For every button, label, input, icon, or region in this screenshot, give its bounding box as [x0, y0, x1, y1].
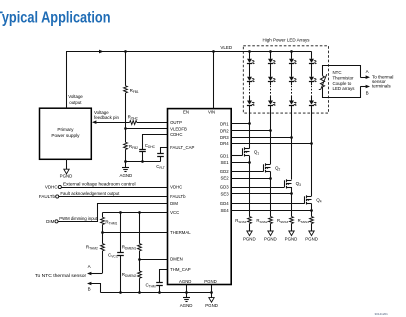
LED D2a	[268, 59, 273, 63]
resistor R_FB1	[124, 86, 128, 93]
LED D1c	[247, 101, 252, 105]
wire DMEN	[139, 259, 167, 261]
resistor R_FB2	[124, 142, 128, 149]
node feedback AGND rail	[124, 160, 127, 163]
wire GD1	[231, 155, 242, 157]
ground AGND under IC	[186, 285, 188, 298]
LED D3b	[289, 77, 294, 81]
svg-text:EN: EN	[183, 109, 189, 114]
resistor R_DMEN2	[139, 259, 141, 271]
wire GD2	[231, 171, 263, 173]
LED D2c	[268, 101, 273, 105]
svg-text:PGND: PGND	[264, 237, 277, 242]
svg-text:SE3: SE3	[220, 192, 229, 197]
LED D2b	[268, 77, 273, 81]
svg-text:CDHC: CDHC	[170, 132, 182, 137]
wire SE3	[231, 193, 291, 195]
svg-text:VDHC: VDHC	[45, 185, 59, 190]
svg-text:THERMAL: THERMAL	[170, 230, 191, 235]
svg-text:DR1: DR1	[220, 122, 229, 127]
node THERMAL	[101, 231, 104, 234]
node VLED string3	[290, 50, 293, 53]
svg-text:FAULTb: FAULTb	[39, 194, 56, 199]
wire GD4	[231, 203, 305, 205]
svg-text:LED arrays: LED arrays	[333, 86, 356, 91]
node C_THM gnd	[158, 291, 161, 294]
svg-text:SE2: SE2	[220, 176, 229, 181]
node SE2	[269, 177, 272, 180]
transistor Q3	[284, 180, 286, 187]
svg-text:PGND: PGND	[243, 237, 256, 242]
LED D3a	[289, 59, 294, 63]
wire source to sense resistor 3	[291, 187, 293, 217]
node VCC C_VCC tap	[119, 211, 122, 214]
node VLED VIN tap	[212, 50, 215, 53]
ground PGND sense 1	[249, 224, 251, 232]
node SE4	[310, 209, 313, 212]
wire bottom AGND rail	[101, 292, 212, 294]
resistor R_SNS4	[310, 217, 314, 224]
LED D4b	[309, 77, 314, 81]
svg-text:feedback pin: feedback pin	[94, 115, 119, 120]
transistor Q4	[304, 196, 306, 203]
wire VIN	[213, 52, 215, 109]
svg-text:A: A	[366, 69, 369, 74]
wire source to sense resistor 1	[249, 156, 251, 217]
wire THERMAL	[102, 232, 168, 234]
wire node B to ground rail	[91, 284, 100, 293]
node VLED string2	[269, 50, 272, 53]
svg-text:FAULTb: FAULTb	[170, 194, 186, 199]
node R_DMEN2 gnd	[138, 291, 141, 294]
node DR3	[290, 136, 293, 139]
svg-text:GD4: GD4	[220, 201, 229, 206]
wire THM_CAP	[160, 270, 168, 283]
node B arrow	[87, 282, 91, 286]
ground PGND sense 2	[270, 224, 272, 232]
svg-text:terminals: terminals	[372, 84, 391, 89]
svg-text:VDHC: VDHC	[170, 185, 182, 190]
wire R_THM2 to node A	[102, 251, 104, 274]
svg-text:PGND: PGND	[204, 279, 216, 284]
capacitor C_FLT	[157, 153, 164, 155]
node DMEN	[138, 258, 141, 261]
wire VDHC	[61, 187, 167, 189]
node SE1	[248, 161, 251, 164]
wire CDHC	[143, 135, 168, 150]
svg-text:PGND: PGND	[285, 237, 298, 242]
ground PGND under IC	[211, 285, 213, 298]
node A arrow	[87, 272, 91, 276]
svg-text:A: A	[88, 264, 91, 269]
wire OUTP feedback	[96, 122, 129, 124]
svg-text:GD1: GD1	[220, 154, 229, 159]
svg-text:B: B	[366, 90, 369, 95]
wire DIM	[58, 204, 167, 222]
wire FAULT_CAP	[161, 148, 168, 154]
node DR4	[310, 142, 313, 145]
wire NTC loop bottom	[323, 87, 361, 98]
svg-text:output: output	[69, 100, 82, 105]
svg-text:Thermistor: Thermistor	[333, 76, 355, 81]
wire voltage output	[66, 52, 68, 109]
LED D1a	[247, 59, 252, 63]
IC U1 LED driver	[168, 109, 232, 285]
svg-text:DR2: DR2	[220, 128, 229, 133]
resistor R_SNS2	[269, 217, 273, 224]
wire feedback divider	[125, 52, 127, 86]
resistor R_SNS3	[290, 217, 294, 224]
svg-text:VLEDFB: VLEDFB	[170, 127, 187, 132]
wire LED string 2	[270, 52, 272, 59]
svg-text:30141201: 30141201	[375, 312, 389, 316]
svg-text:GD2: GD2	[220, 169, 229, 174]
svg-text:Primary: Primary	[57, 127, 74, 132]
svg-text:AGND: AGND	[120, 173, 133, 178]
svg-text:Fault acknowledgement output: Fault acknowledgement output	[60, 191, 120, 196]
svg-text:NTC: NTC	[333, 70, 342, 75]
wire source to sense resistor 4	[311, 204, 313, 217]
wire DR3	[231, 137, 291, 139]
wire VCC	[103, 212, 168, 214]
ground PGND power supply	[66, 159, 68, 169]
node VCC R_DMEN tap	[138, 211, 141, 214]
svg-text:PGND: PGND	[205, 303, 218, 308]
wire SE4	[231, 210, 311, 212]
LED D4a	[309, 59, 314, 63]
node VLED string1	[248, 50, 251, 53]
node VLED feedback tap	[124, 50, 127, 53]
thermistor RT	[320, 76, 324, 87]
wire AGND rail feedback	[126, 161, 161, 163]
svg-text:SE1: SE1	[220, 160, 229, 165]
svg-text:B: B	[88, 286, 91, 291]
svg-text:VIN: VIN	[208, 109, 215, 114]
wire LED string 3	[291, 52, 293, 59]
svg-text:Typical Application: Typical Application	[0, 10, 111, 27]
svg-text:VLED: VLED	[220, 45, 233, 50]
resistor R_THM1	[102, 213, 104, 218]
arrow NTC terminal A	[360, 77, 366, 79]
svg-text:SE4: SE4	[220, 208, 229, 213]
svg-text:DR4: DR4	[220, 141, 229, 146]
capacitor C_DHC	[139, 149, 146, 151]
svg-text:DR3: DR3	[220, 135, 229, 140]
svg-text:External voltage headroom cont: External voltage headroom control	[63, 181, 136, 186]
svg-text:VCC: VCC	[170, 210, 179, 215]
arrow current flow on VLED rail	[99, 50, 104, 54]
wire DR1	[231, 123, 249, 125]
wire DR2	[231, 130, 270, 132]
wire VLEDFB	[126, 128, 168, 130]
wire LED string 1	[249, 52, 251, 59]
arrowhead voltage feedback	[92, 120, 96, 124]
resistor R_OHC	[130, 121, 137, 125]
capacitor C_THM	[156, 282, 163, 284]
wire NTC loop top	[323, 66, 361, 78]
svg-text:THM_CAP: THM_CAP	[170, 267, 191, 272]
node DR1	[248, 122, 251, 125]
node SE3	[290, 192, 293, 195]
ground AGND feedback	[125, 161, 127, 167]
svg-text:DIM: DIM	[170, 201, 178, 206]
wire DR4	[231, 143, 311, 145]
svg-text:OUTP: OUTP	[170, 120, 182, 125]
svg-text:Couple to: Couple to	[333, 81, 352, 86]
ground PGND sense 4	[311, 224, 313, 232]
arrow NTC terminal B	[360, 86, 366, 88]
wire SE1	[231, 162, 249, 164]
svg-text:FAULT_CAP: FAULT_CAP	[170, 145, 194, 150]
svg-text:To NTC thermal sensor: To NTC thermal sensor	[35, 273, 87, 278]
wire GD3	[231, 187, 284, 189]
ground PGND sense 3	[291, 224, 293, 232]
resistor R_DMEN1	[139, 213, 141, 244]
wire source to sense resistor 2	[270, 172, 272, 217]
wire LED string 4	[311, 52, 313, 59]
dashed box High Power LED Arrays	[243, 46, 328, 113]
svg-text:PWM dimming input: PWM dimming input	[59, 216, 98, 221]
node DR2	[269, 129, 272, 132]
svg-text:High Power LED Arrays: High Power LED Arrays	[263, 38, 311, 43]
node VLEDFB	[124, 127, 127, 130]
svg-text:PGND: PGND	[305, 237, 318, 242]
node C_VCC gnd	[119, 291, 122, 294]
resistor R_SNS1	[248, 217, 252, 224]
LED D1b	[247, 77, 252, 81]
transistor Q2	[263, 164, 265, 171]
svg-text:Voltage: Voltage	[68, 94, 83, 99]
power supply box	[40, 108, 92, 159]
LED D3c	[289, 101, 294, 105]
wire VLED rail	[66, 51, 312, 53]
wire FAULTb	[59, 196, 168, 198]
svg-text:AGND: AGND	[180, 303, 193, 308]
svg-text:DIM: DIM	[46, 219, 55, 224]
wire SE2	[231, 178, 270, 180]
resistor R_THM2	[102, 233, 104, 244]
capacitor C_VCC	[120, 213, 122, 253]
svg-text:GD3: GD3	[220, 185, 229, 190]
svg-text:PGND: PGND	[60, 173, 73, 178]
svg-text:AGND: AGND	[179, 279, 191, 284]
node C_DHC AGND	[141, 160, 144, 163]
LED D4c	[309, 101, 314, 105]
svg-text:DMEN: DMEN	[170, 257, 183, 262]
transistor Q1	[242, 148, 244, 155]
svg-text:Power supply: Power supply	[51, 133, 80, 138]
